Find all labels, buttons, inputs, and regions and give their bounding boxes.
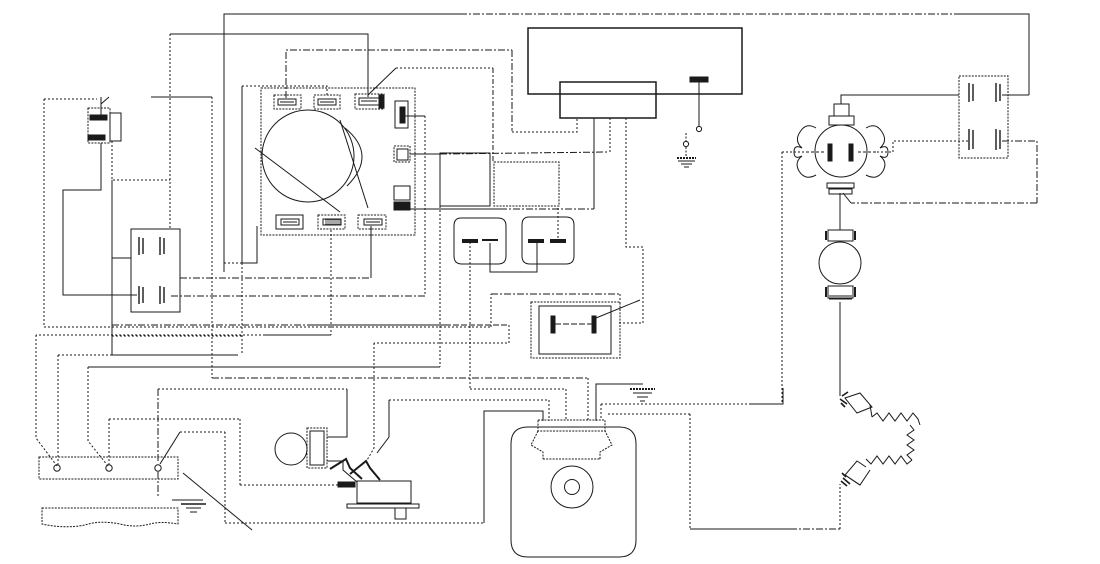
heater element	[840, 392, 920, 486]
wire YL35 door switch to drive motor pin8	[389, 399, 549, 401]
dryness sensor contact circles	[696, 126, 701, 131]
wire RD11 EC pin4 down	[618, 118, 643, 323]
push to start switch box	[531, 302, 620, 358]
thermal fuse F1 body	[454, 218, 506, 264]
wire PU37 temp switch right	[1002, 141, 1037, 203]
electronic control box	[528, 28, 742, 94]
wire GY24 diagonal and run	[368, 68, 396, 95]
timer terminal Y/L	[314, 95, 340, 109]
wire WH29 N to door switch	[109, 418, 240, 420]
wire YL34 to door switch	[374, 342, 495, 344]
thermal fuse F1 terminals	[462, 240, 478, 242]
wire RD31 lower run to drive motor pin5	[212, 377, 588, 379]
wire WH17 lower run	[88, 366, 440, 368]
wire GY51 thermal fuse to drive motor pin4	[469, 242, 471, 389]
thermal fuse label box	[440, 153, 490, 206]
wire BU44 top run	[224, 14, 460, 272]
interior lamp	[275, 428, 327, 468]
timer terminal P/U	[358, 215, 386, 229]
wire GY12 lamp to door switch	[327, 461, 357, 482]
wire RD31 from chime	[151, 96, 212, 98]
wire GY25 link	[490, 243, 537, 272]
wire mesh jog y336	[112, 335, 242, 337]
wire GY47 top run	[170, 34, 368, 97]
wire GY47 chime jog	[112, 141, 170, 180]
wire BK32 drive motor to cycling	[600, 404, 602, 418]
temp switch terminal WH/PU	[969, 129, 1000, 150]
wire PK45 from timer PK terminal	[405, 115, 425, 117]
timer box	[261, 88, 415, 235]
wire BU44 timer B/U drop	[242, 226, 257, 263]
temp switch terminal RD/BU	[969, 83, 1000, 102]
wire RD11/RD30 into push-to-start right contact	[596, 300, 640, 318]
power cord banner	[42, 508, 178, 527]
timer terminal G/Y	[355, 94, 384, 109]
wire OR14 run	[286, 50, 512, 98]
wire RD30 lower run	[44, 326, 491, 328]
dryness sensor connector bar	[690, 77, 708, 82]
timer terminal PK	[395, 101, 408, 128]
timer terminal O/R	[274, 95, 301, 109]
thermal fuse heater label box	[494, 162, 559, 206]
wire BK33 drive motor to heater	[608, 413, 690, 415]
ground drive motor	[630, 389, 655, 401]
wire RD42 cycling to temp switch	[841, 95, 959, 104]
wire fuse F2 to label box	[557, 206, 559, 238]
hi-limit thermostat	[819, 230, 861, 299]
pointer line terminal block	[183, 473, 252, 530]
chime	[88, 97, 121, 143]
wire WH17 timer WH to EC pin3	[410, 153, 440, 155]
temp switch box	[959, 76, 1008, 158]
thermal fuse F2 terminals	[528, 240, 544, 242]
cycling thermostat body	[794, 104, 888, 194]
wire RD30 top	[44, 98, 97, 100]
wire GY47 left vertical	[169, 34, 171, 229]
timer terminal BR	[394, 186, 410, 210]
wire YL43 top	[242, 86, 327, 95]
wire WH38	[873, 141, 969, 152]
push to start contacts	[551, 316, 555, 333]
option switch U1	[131, 229, 180, 312]
wire YL43 lower run	[112, 354, 238, 356]
timer terminal B/U	[276, 215, 303, 229]
EC terminal strip 1-5	[560, 82, 656, 118]
timer motor circle	[255, 110, 368, 238]
wire temp switch to BU44	[1002, 94, 1029, 96]
timer terminal WH	[394, 146, 410, 162]
wire YL34/push-to-start line y325	[112, 324, 310, 326]
terminal block	[39, 457, 178, 479]
wire GY47 option switch stub	[112, 180, 131, 258]
wire BU19 EC to dryness sensor	[698, 82, 700, 126]
wire BU40 terminal block L2 to lamp	[158, 388, 347, 390]
wire BR15 timer BR to EC pin2	[403, 208, 500, 210]
ground terminal block	[172, 500, 206, 512]
timer terminal B/K	[318, 215, 345, 229]
wire BU28 L2 to drive motor pin2	[160, 432, 180, 464]
wire PK5 chime to option switch	[63, 143, 137, 295]
wire BK23 timer BK down	[330, 230, 332, 335]
wire PU46 option to timer	[180, 277, 371, 279]
wire BK32 left of cycling	[782, 151, 810, 153]
wire PU36 cycling to hi-limit	[839, 193, 841, 230]
ground dryness sensor	[677, 158, 696, 167]
wire BR55 hi-limit to heater	[839, 302, 841, 396]
wire GN drive motor ground	[596, 384, 643, 421]
door switch	[330, 459, 419, 519]
thermal fuse F2 body (heater)	[522, 217, 574, 264]
drive motor body	[511, 420, 636, 557]
